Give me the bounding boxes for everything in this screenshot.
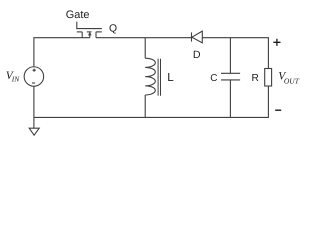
body arrow head [88, 32, 92, 36]
wire: capacitor bottom branch [229, 80, 231, 118]
svg-text:R: R [252, 73, 259, 84]
source stub [81, 32, 83, 38]
wire: inductor bottom branch [144, 95, 146, 117]
svg-text:Gate: Gate [66, 9, 90, 21]
svg-text:Q: Q [109, 23, 117, 34]
wire: inductor top branch [144, 38, 146, 59]
transistor Q (MOSFET) [76, 29, 102, 38]
wire: diode anode to top-right corner down to resistor top [202, 38, 268, 69]
wire: resistor bottom to bottom rail back to left [34, 86, 269, 117]
svg-text:C: C [210, 73, 217, 84]
output plus [273, 39, 280, 46]
svg-text:OUT: OUT [284, 76, 300, 85]
ground [29, 128, 39, 135]
wire: capacitor top branch [229, 38, 231, 74]
inductor core bar 2 [160, 59, 162, 96]
channel segment left [77, 31, 82, 33]
capacitor C top plate [221, 72, 240, 74]
wire: MOSFET drain to diode cathode [96, 37, 191, 39]
channel segment right [96, 31, 102, 33]
inductor L coil [145, 58, 155, 95]
output minus [275, 109, 281, 111]
voltage source VIN circle [24, 67, 44, 87]
wire: source bottom down through bottom-rail junction to ground [33, 86, 35, 128]
drain stub [95, 32, 97, 38]
wire: left rail from source top up and right to MOSFET source node [34, 38, 90, 67]
capacitor C bottom plate [221, 79, 240, 81]
body arrow shaft [89, 35, 91, 38]
resistor R box [265, 69, 272, 87]
wire: gate lead [76, 22, 78, 29]
minus sign inside source [32, 82, 35, 84]
svg-text:D: D [193, 49, 201, 61]
diode D cathode bar [191, 32, 193, 41]
diode D triangle [192, 31, 202, 43]
svg-text:L: L [167, 71, 174, 84]
plus sign inside source [33, 69, 36, 72]
gate plate [76, 28, 102, 30]
svg-text:IN: IN [11, 74, 20, 83]
channel segment middle [87, 31, 92, 33]
inductor core bar 1 [157, 59, 159, 96]
